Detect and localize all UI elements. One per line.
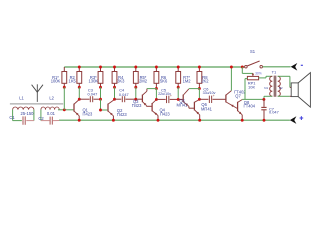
transistor Q4 П423 bbox=[152, 100, 170, 117]
wire Q5 collector bbox=[189, 88, 200, 90]
node resistor bottom dots bbox=[63, 86, 201, 90]
resistor R5* 2M2 bbox=[133, 67, 147, 87]
node Q1 emitter bbox=[78, 119, 81, 122]
wire Q6 emitter bbox=[199, 115, 201, 120]
svg-text:0.047: 0.047 bbox=[119, 92, 129, 97]
wire Q8 emitter bbox=[241, 115, 243, 120]
node Q2 collector bbox=[113, 98, 116, 101]
svg-text:10K: 10K bbox=[248, 85, 255, 90]
wire RP1 left to Q8 collector bbox=[245, 79, 247, 100]
svg-text:L2: L2 bbox=[49, 96, 54, 101]
wire Q3 base bbox=[136, 98, 142, 100]
wire R6 drop bbox=[155, 89, 157, 100]
svg-text:3K3: 3K3 bbox=[117, 79, 125, 84]
node Q6 collector bbox=[198, 98, 201, 101]
resistor R4 3K3 bbox=[112, 67, 125, 87]
resistor R7* 1M2 bbox=[176, 67, 192, 87]
svg-text:T1: T1 bbox=[272, 70, 277, 75]
capacitor C6 33u/10v bbox=[199, 86, 225, 103]
wire Q5 base bbox=[178, 98, 183, 100]
transistor Q7 ГТ402 bbox=[226, 90, 246, 109]
node Q2 base corner bbox=[99, 109, 102, 112]
svg-text:МП41: МП41 bbox=[177, 102, 189, 107]
node Q6 emitter bbox=[198, 119, 201, 122]
svg-text:L1: L1 bbox=[19, 96, 24, 101]
wire R4 drop bbox=[114, 87, 116, 99]
wire R8 drop bbox=[198, 89, 200, 100]
svg-text:30%: 30% bbox=[255, 72, 262, 76]
svg-text:N1: N1 bbox=[264, 86, 268, 90]
node S1 rail junction bbox=[241, 66, 244, 69]
svg-text:Q7: Q7 bbox=[235, 93, 241, 98]
speaker BA1 bbox=[291, 73, 310, 108]
capacitor C4 0.047 bbox=[115, 88, 136, 103]
switch S1 bbox=[245, 49, 263, 68]
wire T1 secondary top bbox=[278, 76, 292, 87]
wire Q8 collector to transformer bbox=[242, 98, 264, 100]
node C7 ground bbox=[263, 119, 266, 122]
wire L2 to Q1 base bbox=[58, 109, 73, 111]
svg-text:5K6: 5K6 bbox=[160, 79, 168, 84]
svg-text:1M2: 1M2 bbox=[183, 79, 192, 84]
svg-text:0.047: 0.047 bbox=[88, 91, 98, 96]
wire top supply rail bbox=[64, 66, 244, 68]
wire Q4 emitter bbox=[157, 116, 159, 121]
transformer T1 core bbox=[272, 70, 277, 97]
wire Q2 emitter bbox=[112, 116, 114, 120]
transformer T1 primary bbox=[270, 76, 273, 96]
capacitor C2 0.01 bbox=[38, 111, 55, 125]
inductor L2 bbox=[41, 96, 59, 110]
battery terminal minus bbox=[291, 63, 303, 71]
node Q1 collector bbox=[78, 98, 81, 101]
svg-text:0.047: 0.047 bbox=[269, 110, 279, 115]
wire T1 secondary bottom bbox=[278, 95, 292, 97]
svg-text:П423: П423 bbox=[132, 103, 142, 108]
node L2/R1/base junction bbox=[63, 108, 66, 111]
wire R1 drop bbox=[63, 87, 65, 110]
svg-text:N2: N2 bbox=[279, 86, 283, 90]
transistor Q8 ГТ404 bbox=[238, 100, 256, 115]
capacitor C5 22u/10v bbox=[156, 87, 178, 103]
node C5/R7 junction bbox=[177, 98, 180, 101]
transformer T1 secondary bbox=[278, 76, 281, 96]
wire L2 left bbox=[40, 110, 42, 121]
wire Q7 collector to rail bbox=[230, 67, 232, 91]
label T1 winding N2 bbox=[279, 86, 283, 90]
wire bottom ground rail bbox=[59, 119, 290, 121]
wire C2 line bbox=[41, 120, 59, 122]
capacitor C3 0.047 bbox=[79, 87, 100, 102]
wire R5 drop bbox=[135, 87, 137, 99]
svg-text:ГТ404: ГТ404 bbox=[244, 103, 256, 108]
resistor R8 2K2 bbox=[197, 67, 209, 89]
svg-text:П423: П423 bbox=[160, 112, 170, 117]
svg-text:130K: 130K bbox=[89, 79, 99, 84]
wire R7 drop bbox=[177, 87, 179, 99]
wire RP1 wiper bbox=[242, 67, 254, 76]
svg-text:0.01: 0.01 bbox=[47, 111, 56, 116]
wire RP1 right to transformer bbox=[259, 76, 273, 78]
svg-text:МП41: МП41 bbox=[201, 107, 213, 112]
resistor R6 5K6 bbox=[154, 67, 168, 89]
antenna W1 bbox=[32, 84, 43, 102]
wire L1 loop bbox=[13, 110, 34, 121]
svg-text:100K: 100K bbox=[51, 79, 61, 84]
node Q2 emitter bbox=[112, 119, 115, 122]
node T1/C7 junction bbox=[262, 98, 265, 101]
transistor Q6 МП41 bbox=[194, 100, 212, 115]
potentiometer RP1 10K bbox=[247, 72, 261, 90]
node C4/R5 junction bbox=[134, 98, 137, 101]
node rail dots bbox=[78, 66, 201, 69]
wire T1 primary bottom bbox=[264, 96, 272, 99]
node C3/R3 junction bbox=[99, 98, 102, 101]
capacitor C7 0.047 bbox=[261, 99, 278, 120]
wire Q1 emitter bbox=[78, 116, 80, 120]
resistor R1* 100K bbox=[51, 67, 67, 87]
svg-text:П423: П423 bbox=[83, 112, 93, 117]
wire S1 to battery minus bbox=[263, 66, 291, 68]
transistor Q1 П423 bbox=[74, 100, 93, 117]
wire Q3 emitter to Q4 base bbox=[146, 104, 151, 107]
svg-text:1K5: 1K5 bbox=[69, 79, 77, 84]
wire R2 drop bbox=[78, 87, 80, 99]
svg-text:S1: S1 bbox=[250, 49, 256, 54]
battery terminal plus bbox=[290, 116, 303, 124]
svg-text:П423: П423 bbox=[117, 112, 127, 117]
wire Q2 base bbox=[101, 99, 108, 110]
svg-text:C1: C1 bbox=[9, 115, 15, 120]
svg-text:22u/10v: 22u/10v bbox=[158, 92, 171, 96]
transistor Q5 МП41 bbox=[177, 89, 189, 107]
resistor R3* 130K bbox=[89, 67, 103, 87]
label T1 winding N1 bbox=[264, 86, 268, 90]
wire Q3 collector bbox=[147, 89, 157, 92]
svg-text:C2: C2 bbox=[38, 116, 44, 121]
node Q8 emitter bbox=[241, 119, 244, 122]
node Q7 collector rail bbox=[230, 66, 233, 69]
wire R3 drop bbox=[100, 87, 102, 99]
inductor L1 bbox=[13, 96, 34, 110]
node Q4 emitter bbox=[157, 119, 160, 122]
svg-text:25-150: 25-150 bbox=[21, 111, 35, 116]
svg-text:33u/10v: 33u/10v bbox=[203, 91, 216, 95]
node Q4 collector bbox=[155, 98, 158, 101]
capacitor C1 25-150 bbox=[9, 111, 34, 125]
resistor R2 1K5 bbox=[69, 67, 82, 87]
transistor Q3 П423 bbox=[132, 91, 147, 108]
svg-text:2M2: 2M2 bbox=[139, 79, 148, 84]
transistor Q2 П423 bbox=[108, 100, 127, 117]
wire Q5 emitter to Q6 base bbox=[189, 106, 194, 108]
ferrite rod bbox=[10, 103, 63, 105]
svg-text:2K2: 2K2 bbox=[201, 79, 209, 84]
